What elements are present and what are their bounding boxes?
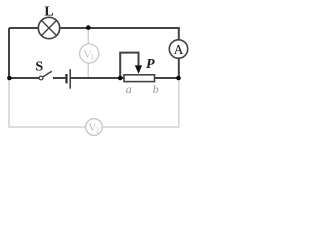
node: right junction xyxy=(176,76,181,81)
svg-text:S: S xyxy=(35,60,43,75)
wire: left rail xyxy=(8,28,10,78)
svg-text:P: P xyxy=(146,57,155,72)
svg-text:L: L xyxy=(91,53,95,61)
svg-text:L: L xyxy=(44,5,53,20)
voltmeter V2 (grey) xyxy=(86,119,103,136)
svg-text:2: 2 xyxy=(96,127,100,135)
wire: battery to rheostat junction xyxy=(71,77,124,79)
wire: grey branch from voltmeter VL down to middle wire xyxy=(87,63,89,78)
wire: right rail lower (ammeter to middle junction) xyxy=(178,58,180,78)
battery cell xyxy=(67,69,71,89)
rheostat P body xyxy=(124,75,155,82)
wire: rheostat to right junction xyxy=(155,77,180,79)
svg-text:A: A xyxy=(174,42,184,57)
wire: right rail upper (corner to ammeter) xyxy=(178,27,180,40)
svg-text:b: b xyxy=(153,82,159,96)
wiper arrowhead xyxy=(135,65,142,73)
node: top wire / VL branch junction xyxy=(86,25,91,30)
node: left junction xyxy=(7,76,12,81)
wire: bottom grey loop (voltmeter V2 branch) xyxy=(9,78,86,127)
node: rheostat jumper junction xyxy=(118,76,123,81)
lamp L xyxy=(38,17,59,38)
wire: grey branch from top wire to voltmeter VL xyxy=(87,28,89,44)
ammeter A xyxy=(169,40,187,58)
switch S xyxy=(39,71,52,80)
wire: bottom grey loop right segment xyxy=(102,78,179,127)
wire: top left segment xyxy=(9,27,38,29)
wire: top right segment xyxy=(60,27,180,29)
voltmeter VL (grey) xyxy=(80,44,99,63)
svg-text:a: a xyxy=(126,82,132,96)
wire: jumper from junction up and over to wiper xyxy=(120,53,138,78)
wire: switch to battery xyxy=(53,77,65,79)
wire: middle, left of switch xyxy=(9,77,39,79)
